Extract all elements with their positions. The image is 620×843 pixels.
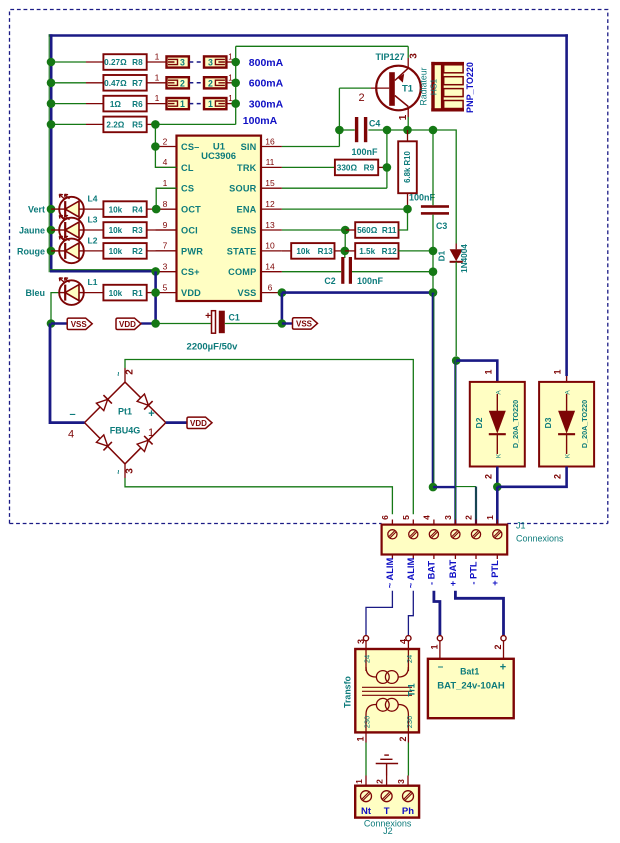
dashed jumper link [189,82,203,84]
svg-text:3: 3 [208,58,213,68]
svg-text:2: 2 [163,136,168,146]
svg-text:800mA: 800mA [249,57,284,69]
wire SENS junction down [344,230,346,251]
U1 pin 7 PWR [156,250,177,252]
svg-text:- BAT: - BAT [426,561,436,585]
connector J2 Connexions [365,776,367,786]
pin 1 left stub R8 [147,61,167,63]
J1 screw terminal 1 [493,530,502,539]
sheet dashed border [10,10,608,524]
svg-text:- PTL: - PTL [469,561,479,585]
svg-text:OCI: OCI [181,225,198,235]
svg-text:1N4004: 1N4004 [460,244,469,273]
svg-text:Pt1: Pt1 [118,407,132,417]
op-amp U1 UC3906 body [177,136,262,301]
wire VSS down left [281,293,284,324]
svg-text:10k: 10k [109,226,123,235]
resistor R9 [335,160,378,176]
svg-text:VDD: VDD [119,320,136,329]
svg-text:10k: 10k [109,205,123,214]
svg-text:HS1: HS1 [429,78,439,95]
svg-text:Rouge: Rouge [17,246,45,256]
wire +BAT vertical to J1 pin3 [454,361,456,525]
wire VDD bus top [49,34,568,37]
svg-text:C1: C1 [229,312,240,322]
Tr1 primary winding [376,698,389,711]
capacitor C3 [421,205,449,208]
J2 screw terminal [403,791,414,802]
wire -BAT to battery pin1 [434,591,440,636]
resistor R7 [103,75,146,91]
wire to VSS flag [51,322,67,324]
svg-text:2: 2 [464,515,474,520]
svg-text:C3: C3 [436,221,447,231]
J2 screw terminal [381,791,392,802]
svg-text:CS+: CS+ [181,267,200,277]
U1 pin 13 SENS [261,229,282,231]
svg-text:1: 1 [155,52,160,62]
wire VDD bus left vertical [48,34,50,272]
wire Bleu corner [51,293,59,324]
svg-text:13: 13 [265,220,275,230]
wire -BAT to -PTL [433,486,455,488]
LED L1 [59,280,84,305]
svg-text:A: A [565,390,572,395]
wire row R5 [51,123,86,125]
svg-text:3: 3 [396,779,406,784]
svg-text:1Ω: 1Ω [110,100,122,109]
chassis ground [386,764,388,776]
jumper link 2 [204,77,226,88]
svg-text:Vert: Vert [28,205,45,215]
svg-text:1: 1 [398,114,409,120]
svg-text:FBU4G: FBU4G [110,426,141,436]
svg-text:Radiateur: Radiateur [419,67,429,105]
transistor T1 TIP127 [376,66,421,111]
junction select R6 [231,99,240,108]
svg-text:C2: C2 [324,276,335,286]
LED L3 [59,218,84,243]
svg-text:R11: R11 [382,226,397,235]
wire R4 to U1 [147,208,177,210]
junction C4 left [335,126,344,135]
wire L3 to R3 [84,229,104,231]
LED L4 [59,197,84,222]
jumper link 1 [167,98,189,109]
svg-text:D_20A_TO220: D_20A_TO220 [580,400,589,448]
resistor R10 [398,141,417,193]
wire CS to OCT [156,188,176,209]
svg-text:R8: R8 [132,58,143,67]
wire VSS horizontal [282,291,433,294]
wire +BAT to battery pin2 [455,591,503,636]
svg-text:6.8k R10: 6.8k R10 [403,151,412,183]
bridge diode top-right [137,393,153,409]
wire R9 right [378,166,387,168]
dashed jumper link [189,61,203,63]
resistor R13 [291,243,334,259]
svg-text:4: 4 [163,157,168,167]
U1 pin 16 SIN [261,146,282,148]
junction emitter node [403,126,412,135]
U1 pin 2 CS– [156,146,177,148]
connector J1 Connexions [382,525,508,555]
resistor R1 [103,285,146,301]
wire L2 to R2 [84,250,104,252]
resistor R3 [103,222,146,238]
wire D1 junction [452,356,461,365]
svg-text:1.5k: 1.5k [359,247,375,256]
U1 pin 1 CS [156,187,177,189]
svg-text:5: 5 [163,282,168,292]
svg-text:T1: T1 [402,84,414,95]
svg-text:R13: R13 [318,247,333,256]
wire L4 left [51,208,59,210]
wire row R8 [51,61,86,63]
svg-text:1: 1 [180,99,185,109]
svg-text:Bleu: Bleu [25,288,45,298]
resistor R8 [103,54,146,70]
wire SIN to node [282,146,340,148]
svg-text:D1: D1 [438,250,447,261]
junction VDD pin [151,288,160,297]
svg-text:2: 2 [398,736,408,741]
wire R5 to select bus [147,123,156,125]
svg-text:600mA: 600mA [249,78,284,90]
J1 screw terminal 4 [429,530,438,539]
svg-text:330Ω: 330Ω [337,164,358,173]
svg-text:2: 2 [358,92,364,104]
J1 screw terminal 5 [409,530,418,539]
svg-text:1: 1 [155,93,160,103]
power flag VSS [67,318,92,329]
svg-text:1: 1 [356,736,366,741]
svg-text:Ph: Ph [402,806,414,817]
svg-text:10k: 10k [109,289,123,298]
svg-text:SENS: SENS [231,225,257,235]
svg-text:14: 14 [265,262,275,272]
junction select R7 [231,79,240,88]
wire SOUR [282,187,387,189]
wire vertical x387 [386,130,388,188]
wire L3 left [51,229,59,231]
svg-text:K: K [565,453,572,458]
svg-text:2.2Ω: 2.2Ω [106,121,124,130]
svg-text:5: 5 [401,515,411,520]
svg-text:UC3906: UC3906 [201,151,236,162]
svg-text:VDD: VDD [190,419,207,428]
svg-text:~ ALIM: ~ ALIM [385,558,395,589]
bridge pin 2 top [124,368,126,382]
junction VSS right [429,288,438,297]
svg-text:+: + [500,662,506,674]
pin 1 right stub R7 [226,82,235,84]
svg-text:R2: R2 [132,247,143,256]
wire R5 select to CS- [154,124,156,145]
U1 pin 8 OCT [156,208,177,210]
wire Tr1 pin2 to J2 [407,743,409,776]
svg-text:7: 7 [163,241,168,251]
junction select R8 [231,58,240,67]
resistor R4 [103,201,146,217]
junction T1 base node [383,126,392,135]
svg-text:10: 10 [265,241,275,251]
wire COMP to C2 [282,271,341,273]
power flag VDD [116,318,141,329]
svg-text:L3: L3 [88,215,98,225]
wire D2 cathode [496,467,499,487]
svg-text:VSS: VSS [296,320,313,329]
U1 pin 3 CS+ [156,271,177,273]
svg-text:TIP127: TIP127 [375,52,404,62]
J1 screw terminal 2 [471,530,480,539]
power flag VDD [187,417,212,428]
svg-text:10k: 10k [109,247,123,256]
wire CS- to CL [155,147,176,168]
svg-text:R1: R1 [132,289,143,298]
svg-text:100mA: 100mA [243,115,278,127]
svg-text:1: 1 [208,99,213,109]
wire bridge AC top to J1 pin5 [125,360,413,515]
svg-text:2: 2 [180,78,185,88]
bridge rectifier Pt1 FBU4G [85,382,166,464]
jumper link 1 [204,98,226,109]
svg-text:11: 11 [266,157,275,167]
svg-text:10k: 10k [296,247,310,256]
wire bridge AC bottom to J1 pin6 [125,478,392,514]
wire row R7 [51,82,86,84]
svg-text:Transfo: Transfo [343,675,353,707]
svg-text:Jaune: Jaune [19,226,45,236]
svg-text:9: 9 [163,220,168,230]
bridge plus wire to VDD flag [166,421,187,424]
svg-text:A: A [495,390,502,395]
svg-text:24: 24 [363,655,372,663]
svg-text:3: 3 [443,515,453,520]
svg-text:2: 2 [493,644,503,649]
heatsink HS1 Radiateur [431,62,464,112]
svg-text:+ BAT: + BAT [448,559,458,586]
pin 1 left stub R6 [147,103,167,105]
diode D2 D_20A_TO220 [470,382,525,467]
capacitor C2 [341,257,344,284]
svg-text:Connexions: Connexions [516,534,564,544]
junction OCT [152,205,161,214]
svg-text:3: 3 [125,468,136,474]
wire junction to R12 [345,250,355,252]
svg-text:D2: D2 [474,417,484,428]
wire L4 to R4 [84,208,104,210]
wire R3 to U1 [147,229,177,231]
svg-text:560Ω: 560Ω [357,226,378,235]
bridge diode bottom-left [96,434,112,450]
junction COMP [429,267,438,276]
svg-text:SIN: SIN [241,142,257,152]
junction C3 top node [429,126,438,135]
junction bus L4 [47,205,56,214]
svg-text:R6: R6 [132,100,143,109]
svg-text:R12: R12 [382,247,397,256]
pin 1 right stub R6 [226,103,235,105]
Tr1 bottom pins [365,732,367,742]
resistor R11 [355,222,398,238]
wire R13 to junction [335,250,345,252]
svg-text:6: 6 [380,515,390,520]
junction bus L2 [47,247,56,256]
wire to T1 collector [236,45,409,47]
wire L1 to R1 [84,292,104,294]
bridge diode bottom-right [137,436,153,452]
wire ALIM pin5 to transformer pin4 [408,591,413,636]
junction bus R5 [47,120,56,129]
svg-text:3: 3 [163,262,168,272]
svg-text:D3: D3 [543,417,553,428]
junction bus R8 [47,58,56,67]
svg-text:0.47Ω: 0.47Ω [104,79,127,88]
jumper link 3 [167,56,189,67]
pin 1 right stub R8 [226,61,235,63]
wire D3 cathode [497,467,566,487]
U1 pin 6 VSS [261,292,282,294]
jumper link 2 [167,77,189,88]
svg-text:VSS: VSS [71,320,88,329]
bridge diode top-left [96,395,112,411]
svg-text:6: 6 [268,282,273,292]
wire Tr1 pin1 to J2 [365,743,367,776]
junction CS- [151,142,160,151]
pin 1 left stub R7 [147,82,167,84]
dashed jumper link [189,103,203,105]
resistor R6 [103,96,146,112]
junction bus R7 [47,79,56,88]
Tr1 pins into box [365,641,367,671]
wire SENS [282,229,345,231]
U1 pin 4 CL [156,166,177,168]
svg-text:TRK: TRK [237,163,257,173]
junction VSS pin6 [278,288,287,297]
svg-text:VDD: VDD [181,288,201,298]
svg-text:1: 1 [485,515,495,520]
junction R9 [383,163,392,172]
svg-text:BAT_24v-10AH: BAT_24v-10AH [437,681,505,692]
junction SENS [341,226,350,235]
svg-text:–: – [438,662,444,673]
svg-text:1: 1 [430,644,440,649]
svg-text:100nF: 100nF [351,147,378,157]
Tr1 secondary winding [366,667,376,677]
svg-text:COMP: COMP [228,267,256,277]
svg-text:2: 2 [125,369,136,375]
wire to D2 anode [456,361,497,382]
T1 emitter pin 1 to node [407,110,409,117]
svg-text:3: 3 [180,58,185,68]
junction -BAT [429,483,438,492]
svg-text:PWR: PWR [181,246,203,256]
resistor R12 [355,243,398,259]
svg-text:SOUR: SOUR [229,184,257,194]
svg-text:L4: L4 [88,194,98,204]
U1 pin 9 OCI [156,229,177,231]
svg-text:2: 2 [374,779,384,784]
power flag VSS [293,318,318,329]
svg-text:T: T [384,806,390,817]
svg-text:230: 230 [363,716,372,729]
wire CS+ down to VDD [154,271,157,323]
Tr1 core [362,686,412,688]
wire D3 anode from bus [566,376,568,382]
T1 base wire pin 2 [339,87,371,89]
svg-text:Nt: Nt [361,806,372,817]
svg-text:15: 15 [265,178,275,188]
wire ENA [282,208,408,210]
resistor R2 [103,243,146,259]
svg-text:OCT: OCT [181,205,201,215]
svg-text:1: 1 [148,427,154,439]
J2 screw terminal [361,791,372,802]
svg-text:2: 2 [208,78,213,88]
wire R11 right up to ENA [399,209,408,230]
resistor R5 [103,117,146,133]
svg-text:1: 1 [553,369,563,374]
svg-text:24: 24 [405,655,414,663]
svg-text:C4: C4 [369,119,380,129]
bridge pin 3 bottom [124,464,126,478]
wire C3 bottom vertical [432,215,434,293]
diode D3 D_20A_TO220 [539,382,594,467]
wire current select vertical [235,46,237,124]
svg-text:J1: J1 [516,521,526,531]
svg-text:Bat1: Bat1 [460,667,479,677]
svg-text:VSS: VSS [238,288,257,298]
jumper link 3 [204,56,226,67]
svg-text:12: 12 [265,199,275,209]
capacitor C1 2200uF [156,323,212,325]
svg-text:300mA: 300mA [249,98,284,110]
svg-text:4: 4 [421,515,431,520]
svg-text:2: 2 [553,474,563,479]
svg-text:CS–: CS– [181,142,199,152]
svg-text:STATE: STATE [227,246,257,256]
svg-text:R9: R9 [364,164,375,173]
capacitor C4 [355,117,358,142]
junction R13 R12 C2 [341,247,350,256]
wire TRK to R9 [282,166,335,168]
svg-text:1: 1 [484,369,494,374]
svg-text:4: 4 [399,639,409,644]
svg-text:R4: R4 [132,205,143,214]
svg-text:~: ~ [114,469,123,474]
wire bus to CS+ [50,270,156,273]
U1 pin 10 STATE [261,250,282,252]
svg-text:R7: R7 [132,79,143,88]
svg-text:ENA: ENA [237,205,257,215]
wire to D1 [433,130,456,244]
svg-text:+: + [148,408,154,420]
junction C1 right [278,319,287,328]
U1 pin 12 ENA [261,208,282,210]
LED L2 [59,239,84,264]
svg-text:2200µF/50v: 2200µF/50v [187,341,239,352]
svg-text:1: 1 [354,779,364,784]
wire bus right vertical to D3 [565,34,568,376]
U1 pin 15 SOUR [261,187,282,189]
R10 pins [407,130,409,141]
svg-text:8: 8 [163,199,168,209]
svg-text:~ ALIM: ~ ALIM [406,558,416,589]
wire to VSS flag right [282,322,293,324]
wire R2 to U1 [147,250,177,252]
svg-text:Tr1: Tr1 [407,683,417,696]
